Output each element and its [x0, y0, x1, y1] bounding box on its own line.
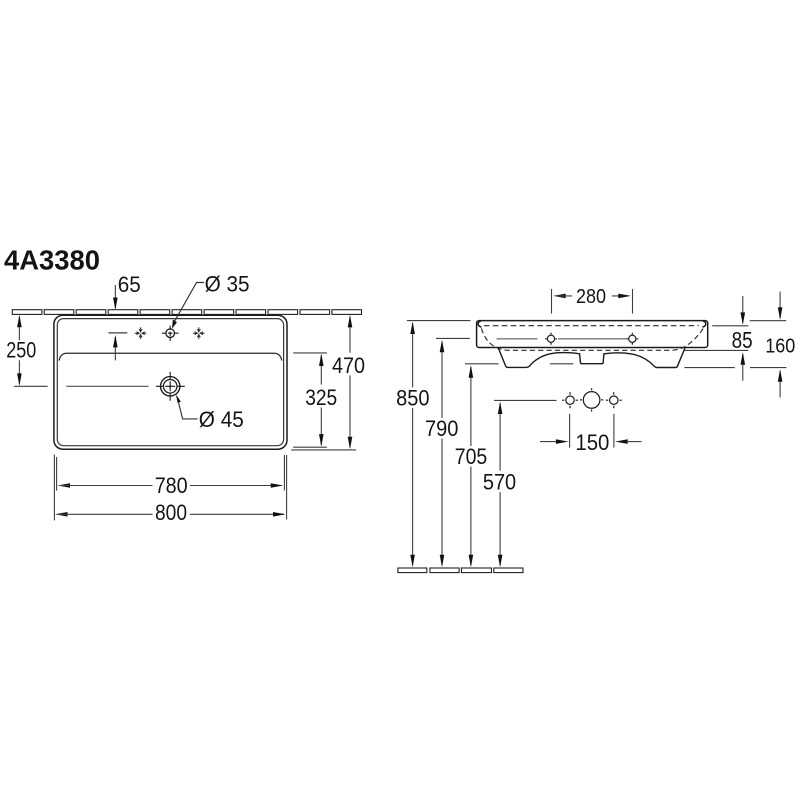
svg-text:250: 250	[6, 338, 36, 363]
bowl back edge line (top view)	[59, 353, 282, 360]
dimension 780	[58, 473, 284, 498]
leader and label Ø35	[172, 272, 250, 329]
svg-text:Ø 35: Ø 35	[205, 272, 250, 297]
article number label 4A3380	[4, 245, 100, 276]
svg-text:470: 470	[332, 353, 365, 378]
leader and label Ø45	[176, 394, 244, 432]
tap hole Ø35 (top view, circle with crosshair)	[162, 326, 179, 341]
dimension 85	[732, 296, 753, 381]
left optional tap hole cross (top view)	[135, 327, 147, 339]
extension line 790 top	[436, 337, 470, 339]
side view fixing hole left	[545, 333, 557, 345]
dimension 470	[332, 315, 365, 449]
side view rim edge curl left	[478, 321, 481, 327]
side view rim edge curl right	[702, 321, 705, 327]
side view fixing hole centerline	[497, 338, 627, 340]
dimension 570	[483, 402, 516, 568]
wall hatch (top view)	[12, 310, 361, 315]
tap hole pattern big center (front view)	[580, 388, 603, 411]
dimension 250	[6, 315, 47, 387]
extension line 705 top	[465, 363, 573, 365]
dimension 705	[455, 365, 488, 567]
svg-text:325: 325	[305, 385, 337, 410]
drain centerline (top view)	[66, 385, 148, 387]
side view hidden bowl profile (dashed)	[481, 328, 703, 350]
svg-text:150: 150	[575, 430, 609, 455]
extension line 850 top	[407, 320, 471, 322]
basin outer outline (top view)	[54, 315, 287, 449]
dimension 850	[396, 322, 429, 568]
dimension 150	[540, 414, 642, 455]
svg-text:705: 705	[455, 444, 488, 469]
side view fixing hole right	[626, 333, 638, 345]
svg-text:850: 850	[396, 386, 429, 411]
extension line 160 bottom	[684, 367, 786, 369]
dimension 280	[552, 286, 633, 314]
svg-text:85: 85	[732, 327, 753, 353]
side view underside profile	[498, 348, 685, 367]
extension line 325 bottom	[293, 446, 327, 448]
tap hole pattern small left (front view)	[562, 392, 578, 408]
side view hidden rim line (dashed)	[484, 325, 699, 327]
extension lines widths (top view bottom)	[54, 455, 286, 521]
dimension 65	[109, 272, 141, 360]
extension line 325 top	[293, 352, 327, 354]
svg-text:780: 780	[155, 473, 188, 498]
svg-text:790: 790	[425, 416, 458, 441]
floor hatch (front view)	[398, 568, 523, 573]
dimension 800	[55, 500, 286, 525]
extension line 85 bottom	[685, 349, 749, 351]
dimension 790	[425, 340, 458, 567]
dimension 325	[305, 354, 337, 447]
svg-text:Ø 45: Ø 45	[199, 407, 244, 432]
tap hole pattern small right (front view)	[606, 392, 622, 408]
dimension 160	[765, 292, 795, 398]
svg-text:570: 570	[483, 470, 516, 495]
right optional tap hole cross (top view)	[193, 327, 205, 339]
svg-text:280: 280	[576, 286, 606, 308]
extension line 160 top	[750, 320, 787, 322]
side view band outline	[477, 321, 708, 348]
drain hole Ø45 (top view, concentric circles with centerlines)	[156, 372, 185, 401]
extension line 470 bottom	[291, 449, 356, 451]
svg-text:160: 160	[765, 336, 795, 358]
svg-text:800: 800	[155, 500, 187, 525]
svg-text:65: 65	[118, 272, 141, 297]
svg-text:4A3380: 4A3380	[4, 245, 100, 276]
extension line 570 top	[494, 399, 557, 401]
extension line 85 top	[712, 325, 748, 327]
basin inner rim line (top view)	[57, 319, 283, 446]
